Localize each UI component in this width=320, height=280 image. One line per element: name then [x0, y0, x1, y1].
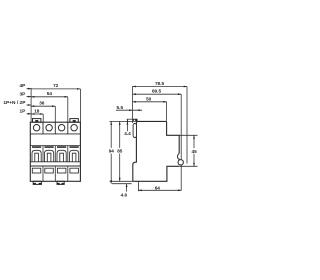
terminal screw pole3 — [58, 125, 64, 131]
dimension 72 line — [31, 88, 80, 90]
arrow 54 left — [31, 96, 34, 98]
dimension 78.5 line — [133, 86, 187, 88]
svg-text:45: 45 — [191, 149, 197, 154]
terminal row bottom line — [30, 133, 80, 135]
label 3P leader — [27, 96, 31, 98]
dimension 18 line — [31, 113, 43, 115]
arrow 50 right — [163, 101, 166, 103]
label window pole4 — [70, 168, 79, 173]
dim text 85 — [117, 148, 123, 154]
extension line 78.5 right — [186, 87, 188, 164]
arrow 18 left — [31, 113, 34, 115]
label window pole3 — [57, 168, 66, 173]
svg-text:85: 85 — [117, 149, 123, 154]
lower section top line — [30, 165, 80, 167]
arrow 69.5 right — [178, 93, 181, 95]
dimension 85 vertical — [119, 121, 121, 181]
marking stripe pole1 — [32, 146, 41, 148]
arrow 4.4 bottom — [127, 122, 129, 125]
dimension 94 vertical — [110, 121, 112, 183]
extension line 64 left — [137, 181, 139, 191]
terminal screw pole4 — [71, 125, 77, 131]
toggle lever pole2 — [47, 153, 51, 162]
svg-text:64: 64 — [155, 185, 161, 190]
pole divider 1 top — [42, 122, 44, 134]
svg-text:4.6: 4.6 — [121, 192, 128, 197]
dimension 50 line — [133, 101, 167, 103]
toggle arch pole3 — [57, 150, 66, 162]
toggle arch pole2 — [45, 150, 54, 162]
extension line 18 right — [42, 114, 44, 122]
svg-text:4.4: 4.4 — [124, 131, 131, 136]
label 1P leader — [27, 113, 31, 115]
top tab pole1 inner mark — [35, 120, 38, 122]
arrow 1P — [28, 113, 31, 115]
DIN clip spring — [177, 153, 179, 159]
arrow 3P — [28, 96, 31, 98]
arrow 1P+N/2P — [28, 104, 31, 106]
body outline — [30, 122, 80, 181]
dim text 94 — [108, 148, 114, 154]
pole divider 1 middle — [42, 146, 44, 162]
arrow 4.4 top — [127, 119, 129, 122]
arrow 45 top — [193, 135, 195, 138]
pole divider 3 top — [67, 122, 69, 134]
extension line 54 right — [67, 97, 69, 122]
terminal screw pole2 — [46, 125, 52, 131]
pole divider 2 top — [54, 122, 56, 134]
baseline lowest plane (94 plane) — [112, 183, 132, 185]
svg-text:1P: 1P — [20, 109, 27, 115]
left common extension line — [30, 88, 32, 122]
arrow 78.5 right — [184, 86, 187, 88]
svg-text:3P: 3P — [20, 91, 27, 97]
svg-text:69.5: 69.5 — [152, 89, 162, 94]
dimension 45 vertical — [193, 135, 195, 166]
pole divider 2 middle — [54, 146, 56, 162]
top extension line left (body top plane) — [109, 120, 136, 122]
toggle band bottom line — [30, 161, 80, 163]
arrow 94 bottom — [110, 180, 112, 183]
extension line 45 bottom — [180, 165, 198, 167]
svg-text:94: 94 — [109, 149, 115, 154]
arrow 36 right — [52, 105, 55, 107]
svg-text:1P+N / 2P: 1P+N / 2P — [3, 100, 26, 106]
arrow 85 bottom — [119, 178, 121, 181]
label window pole2 — [45, 168, 54, 173]
toggle arch pole4 — [70, 150, 79, 162]
arrow 69.5 left — [133, 93, 136, 95]
svg-text:78.5: 78.5 — [155, 81, 165, 86]
tab top extension line — [127, 118, 134, 120]
svg-text:18: 18 — [34, 108, 40, 113]
toggle band top line — [30, 145, 80, 147]
dimension 5.5 line — [116, 109, 142, 111]
dimension 4.6 vertical — [126, 184, 128, 192]
arrow 64 left — [138, 189, 141, 191]
dimension 4.4 vertical — [126, 119, 128, 131]
left extension line (toggle tip plane) — [132, 86, 134, 123]
arrow 78.5 left — [133, 86, 136, 88]
arrow 5.5 left — [129, 109, 132, 111]
top mounting tab pole4 — [70, 119, 78, 123]
pole divider 1 bottom — [42, 166, 44, 181]
side body outline — [133, 121, 180, 181]
arrow 45 bottom — [193, 163, 195, 166]
pole divider 3 middle — [67, 146, 69, 162]
arrow 94 top — [110, 122, 112, 125]
DIN clip circle — [178, 160, 183, 165]
bottom tab pole1 — [33, 181, 41, 184]
toggle lever side view — [133, 124, 136, 138]
baseline extension (85 plane) — [110, 180, 133, 182]
arrow 4P — [28, 88, 31, 90]
bottom tab pole1 feet — [34, 183, 36, 185]
arrow 54 right — [65, 96, 68, 98]
dimension 36 line — [31, 105, 55, 107]
toggle lever pole4 — [72, 153, 76, 162]
label 1P+N/2P leader — [27, 104, 31, 106]
marking stripe pole3 — [57, 146, 66, 148]
svg-text:5.5: 5.5 — [117, 105, 124, 110]
marking stripe pole2 — [45, 146, 54, 148]
top tab pole4 inner mark — [73, 120, 76, 122]
dimension 69.5 line — [133, 93, 182, 95]
label window pole1 — [32, 168, 41, 173]
arrow 85 top — [119, 122, 121, 125]
svg-text:36: 36 — [39, 101, 45, 106]
dimension 54 line — [31, 96, 68, 98]
pole divider 3 bottom — [67, 166, 69, 181]
marking stripe pole4 — [70, 146, 79, 148]
extension line 72 right — [79, 89, 81, 122]
terminal screw pole1 — [33, 125, 39, 131]
pole divider 2 bottom — [54, 166, 56, 181]
top mounting tab pole1 — [33, 119, 41, 123]
label 4P leader — [27, 88, 31, 90]
arrow 50 left — [133, 101, 136, 103]
bottom tab pole3 — [57, 181, 64, 184]
top tab ridge side view — [133, 119, 137, 121]
arrow 72 right — [77, 88, 80, 90]
extension line 36 right — [54, 106, 56, 122]
top tab ridge dark mark — [135, 119, 137, 121]
bottom tab pole3 feet — [57, 183, 59, 185]
toggle lever pole3 — [60, 153, 64, 162]
extension line 50 right — [166, 102, 168, 121]
arrow 4.6 top — [126, 184, 128, 187]
extension line 45 top — [179, 134, 197, 136]
svg-text:50: 50 — [146, 96, 152, 101]
dim text 45 — [191, 148, 197, 154]
extension line 69.5 right — [180, 94, 182, 191]
toggle arch pole1 — [32, 150, 41, 162]
dimension 64 line — [138, 189, 181, 191]
arrow 18 right — [40, 113, 43, 115]
arrow 64 right — [178, 189, 181, 191]
svg-text:72: 72 — [53, 83, 59, 88]
arrow 5.5 right — [136, 109, 139, 111]
svg-text:54: 54 — [47, 91, 53, 96]
arrow 36 left — [31, 105, 34, 107]
toggle lever pole1 — [35, 153, 39, 162]
svg-text:4P: 4P — [20, 83, 27, 89]
